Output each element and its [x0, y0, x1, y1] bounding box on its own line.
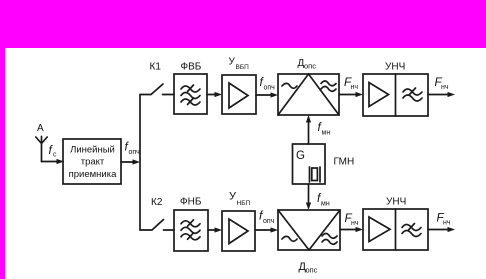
output wire top — [428, 94, 448, 96]
wire FNB to UNBP — [208, 229, 215, 231]
svg-text:ФВБ: ФВБ — [181, 61, 202, 72]
svg-text:К2: К2 — [151, 197, 163, 208]
magenta banner — [0, 0, 486, 48]
svg-text:Линейный: Линейный — [70, 145, 115, 156]
wire antenna to receiver — [42, 161, 58, 163]
UNCh bottom filter waves — [402, 225, 421, 231]
svg-text:G: G — [296, 150, 305, 162]
wire GMN to top mixer — [308, 122, 310, 144]
svg-text:ВБП: ВБП — [236, 64, 250, 71]
block: amplifier UNBP — [222, 211, 255, 251]
svg-text:приемника: приемника — [69, 169, 117, 180]
svg-text:с: с — [53, 152, 57, 159]
svg-text:опс: опс — [304, 62, 316, 71]
D_ops bottom left wave — [282, 236, 297, 241]
svg-text:А: А — [37, 123, 44, 134]
UNCh bottom triangle — [369, 217, 390, 242]
wire bottom mixer to UNCh — [340, 229, 356, 231]
svg-text:опч: опч — [263, 218, 275, 225]
svg-text:нч: нч — [351, 220, 359, 227]
svg-text:УНЧ: УНЧ — [386, 197, 406, 208]
magenta left bar — [0, 48, 5, 279]
svg-text:опч: опч — [129, 149, 141, 156]
antenna A — [36, 136, 47, 161]
switch K2 — [140, 220, 174, 231]
svg-text:мн: мн — [321, 201, 330, 208]
svg-text:ГМН: ГМН — [334, 157, 355, 168]
wire FVB to UVBP — [207, 94, 215, 96]
output wire bottom — [428, 229, 448, 231]
svg-text:опс: опс — [306, 266, 318, 275]
svg-text:нч: нч — [351, 84, 359, 91]
svg-text:нч: нч — [443, 220, 451, 227]
svg-text:К1: К1 — [150, 61, 162, 72]
block: UNCh (top) — [363, 74, 428, 116]
svg-text:НБП: НБП — [237, 200, 251, 207]
block: mixer D_ops (top) — [278, 74, 339, 115]
block: generator GMN — [293, 144, 326, 184]
wire UNBP to bottom mixer — [255, 229, 271, 231]
branch vertical wire — [139, 95, 141, 231]
block: mixer D_ops (bottom) — [278, 210, 340, 250]
block: UNCh (bottom) — [363, 209, 428, 250]
FNB filter waves — [181, 221, 200, 227]
UNCh top triangle — [369, 83, 389, 107]
block: linear receiver path — [63, 139, 121, 184]
svg-text:опч: опч — [264, 85, 276, 92]
UNCh top filter waves — [403, 89, 422, 95]
switch K1 — [140, 84, 174, 95]
svg-text:ФНБ: ФНБ — [180, 197, 202, 208]
wire GMN to bottom mixer — [308, 184, 310, 203]
block: amplifier UVBP — [222, 75, 256, 114]
svg-text:У: У — [229, 57, 236, 68]
FVB filter waves — [181, 86, 200, 92]
svg-text:тракт: тракт — [81, 157, 105, 168]
UVBP triangle — [229, 83, 248, 108]
D_ops top left wave — [282, 83, 297, 88]
block: filter FNB — [174, 210, 208, 251]
svg-text:УНЧ: УНЧ — [385, 62, 405, 73]
crystal symbol — [310, 167, 321, 182]
UNBP triangle — [229, 219, 248, 244]
svg-text:мн: мн — [322, 130, 331, 137]
svg-text:нч: нч — [441, 84, 449, 91]
wire UVBP to mixer — [256, 94, 271, 96]
block: filter FVB — [174, 74, 207, 114]
wire mixer to UNCh (top) — [339, 94, 356, 96]
D_ops top right waves — [321, 81, 336, 86]
D_ops bottom right waves — [322, 234, 337, 239]
wire receiver to branch node — [121, 161, 133, 163]
